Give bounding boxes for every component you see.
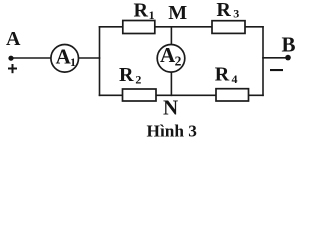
- svg-text:N: N: [163, 96, 178, 120]
- svg-text:R: R: [215, 64, 230, 86]
- svg-text:1: 1: [149, 8, 155, 22]
- svg-text:R: R: [119, 64, 134, 86]
- svg-text:3: 3: [233, 7, 239, 21]
- svg-text:1: 1: [70, 55, 76, 69]
- svg-text:A: A: [160, 43, 176, 67]
- svg-text:R: R: [216, 0, 231, 21]
- svg-text:2: 2: [175, 54, 182, 69]
- svg-text:R: R: [134, 0, 149, 21]
- svg-text:B: B: [282, 32, 296, 56]
- svg-text:A: A: [6, 28, 21, 50]
- svg-text:M: M: [168, 2, 187, 24]
- svg-text:2: 2: [135, 73, 141, 87]
- svg-text:Hình 3: Hình 3: [147, 122, 198, 141]
- svg-text:4: 4: [232, 72, 238, 86]
